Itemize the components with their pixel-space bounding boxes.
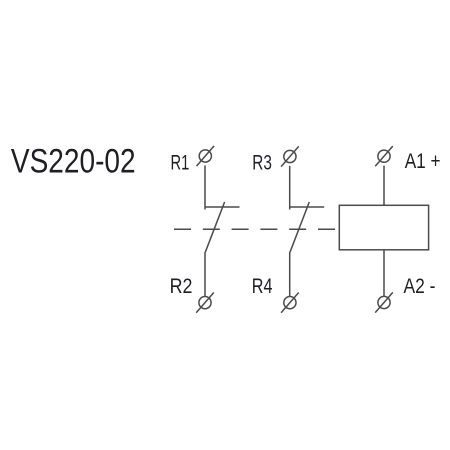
wire R1 down to contact bbox=[204, 165, 206, 209]
label A1 + bbox=[405, 151, 441, 174]
terminal R4 bbox=[281, 293, 299, 313]
label R3 bbox=[252, 150, 272, 174]
label R4 bbox=[252, 274, 273, 298]
contact NC R1-R2 fixed bar bbox=[205, 206, 240, 208]
wire R3 down to contact bbox=[289, 166, 291, 210]
svg-text:A1 +: A1 + bbox=[405, 151, 441, 174]
svg-text:VS220-02: VS220-02 bbox=[11, 142, 136, 180]
svg-text:R1: R1 bbox=[171, 151, 190, 174]
terminal A2 bbox=[375, 292, 393, 312]
svg-text:R3: R3 bbox=[252, 150, 272, 174]
svg-text:A2 -: A2 - bbox=[404, 275, 436, 298]
wire contact to R4 bbox=[289, 252, 291, 297]
wire A1 to coil bbox=[383, 166, 385, 206]
contact NC R3-R4 fixed bar bbox=[290, 206, 325, 208]
wire coil to A2 bbox=[383, 250, 385, 297]
label VS220-02 bbox=[11, 142, 136, 180]
label A2 - bbox=[404, 275, 436, 298]
terminal R3 bbox=[281, 146, 299, 166]
wire contact to R2 bbox=[204, 252, 206, 297]
label R2 bbox=[170, 275, 193, 299]
svg-text:R4: R4 bbox=[252, 274, 273, 298]
terminal R1 bbox=[197, 146, 215, 166]
contact NC R3-R4 moving blade bbox=[290, 202, 309, 252]
label R1 bbox=[171, 151, 190, 174]
terminal A1 bbox=[375, 146, 393, 166]
coil K1 bbox=[339, 205, 428, 250]
svg-text:R2: R2 bbox=[170, 275, 193, 299]
contact NC R1-R2 moving blade bbox=[205, 202, 224, 252]
mechanical linkage dashed line bbox=[174, 228, 335, 230]
terminal R2 bbox=[196, 293, 214, 313]
